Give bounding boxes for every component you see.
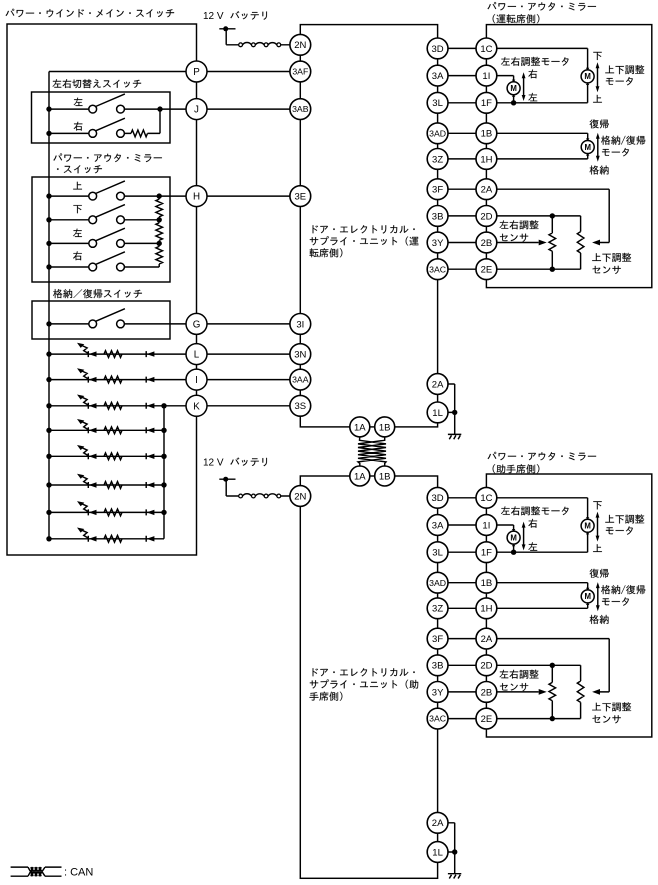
- svg-text:I: I: [195, 375, 198, 386]
- svg-text:K: K: [193, 401, 200, 412]
- svg-text:M: M: [584, 522, 591, 531]
- svg-text:1B: 1B: [379, 422, 391, 433]
- svg-text:3AB: 3AB: [292, 104, 309, 114]
- svg-text:3AD: 3AD: [429, 578, 446, 588]
- svg-text:3AF: 3AF: [292, 67, 308, 77]
- svg-text:1A: 1A: [354, 422, 366, 433]
- svg-text:3Y: 3Y: [432, 687, 444, 698]
- svg-text:3F: 3F: [432, 634, 443, 645]
- svg-text:L: L: [194, 350, 200, 361]
- svg-text:2E: 2E: [481, 265, 493, 276]
- svg-text:M: M: [584, 72, 591, 81]
- svg-text:1B: 1B: [379, 471, 391, 482]
- svg-text:1H: 1H: [480, 604, 492, 615]
- svg-text:M: M: [584, 143, 591, 152]
- svg-text:M: M: [510, 533, 517, 542]
- svg-text:3A: 3A: [432, 520, 444, 531]
- svg-text:3L: 3L: [432, 98, 443, 109]
- svg-text:3B: 3B: [432, 661, 444, 672]
- svg-text:3Z: 3Z: [432, 154, 443, 165]
- svg-text:3N: 3N: [294, 350, 306, 361]
- svg-text:3AD: 3AD: [429, 128, 446, 138]
- svg-text:3AA: 3AA: [292, 375, 309, 385]
- svg-text:2N: 2N: [294, 491, 306, 502]
- svg-text:1C: 1C: [480, 44, 492, 55]
- svg-text:1B: 1B: [481, 578, 493, 589]
- svg-text:2D: 2D: [480, 211, 492, 222]
- svg-text:3A: 3A: [432, 71, 444, 82]
- svg-text:J: J: [194, 105, 199, 116]
- svg-text:3E: 3E: [294, 192, 306, 203]
- svg-text:M: M: [510, 84, 517, 93]
- svg-text:12 V: 12 V: [203, 11, 224, 22]
- svg-text:12 V: 12 V: [203, 458, 224, 469]
- svg-text:2B: 2B: [481, 687, 493, 698]
- svg-text:1I: 1I: [482, 520, 490, 531]
- svg-text:3D: 3D: [432, 44, 444, 55]
- svg-text:1F: 1F: [481, 548, 492, 559]
- svg-text:M: M: [584, 592, 591, 601]
- svg-text:1L: 1L: [432, 847, 443, 858]
- svg-text:1H: 1H: [480, 154, 492, 165]
- svg-text:2B: 2B: [481, 238, 493, 249]
- svg-text:3S: 3S: [294, 401, 306, 412]
- svg-text:3Y: 3Y: [432, 238, 444, 249]
- svg-text:1A: 1A: [354, 471, 366, 482]
- svg-text:1L: 1L: [432, 408, 443, 419]
- svg-text:2A: 2A: [481, 634, 493, 645]
- svg-text:1B: 1B: [481, 129, 493, 140]
- svg-text:P: P: [193, 67, 200, 78]
- svg-text:3D: 3D: [432, 493, 444, 504]
- svg-text:1C: 1C: [480, 493, 492, 504]
- svg-text:G: G: [193, 319, 201, 330]
- svg-text:1F: 1F: [481, 98, 492, 109]
- svg-text:3F: 3F: [432, 185, 443, 196]
- svg-text:3B: 3B: [432, 211, 444, 222]
- svg-text:2A: 2A: [481, 185, 493, 196]
- svg-text:2E: 2E: [481, 714, 493, 725]
- svg-text:2N: 2N: [294, 40, 306, 51]
- svg-text:3Z: 3Z: [432, 604, 443, 615]
- svg-text:2D: 2D: [480, 661, 492, 672]
- svg-text:3AC: 3AC: [429, 714, 446, 724]
- svg-text:2A: 2A: [432, 818, 444, 829]
- svg-text:1I: 1I: [482, 71, 490, 82]
- svg-text:3AC: 3AC: [429, 264, 446, 274]
- svg-text:3I: 3I: [296, 319, 304, 330]
- svg-text:: CAN: : CAN: [64, 866, 93, 878]
- svg-text:2A: 2A: [432, 379, 444, 390]
- svg-text:3L: 3L: [432, 548, 443, 559]
- svg-text:H: H: [193, 192, 200, 203]
